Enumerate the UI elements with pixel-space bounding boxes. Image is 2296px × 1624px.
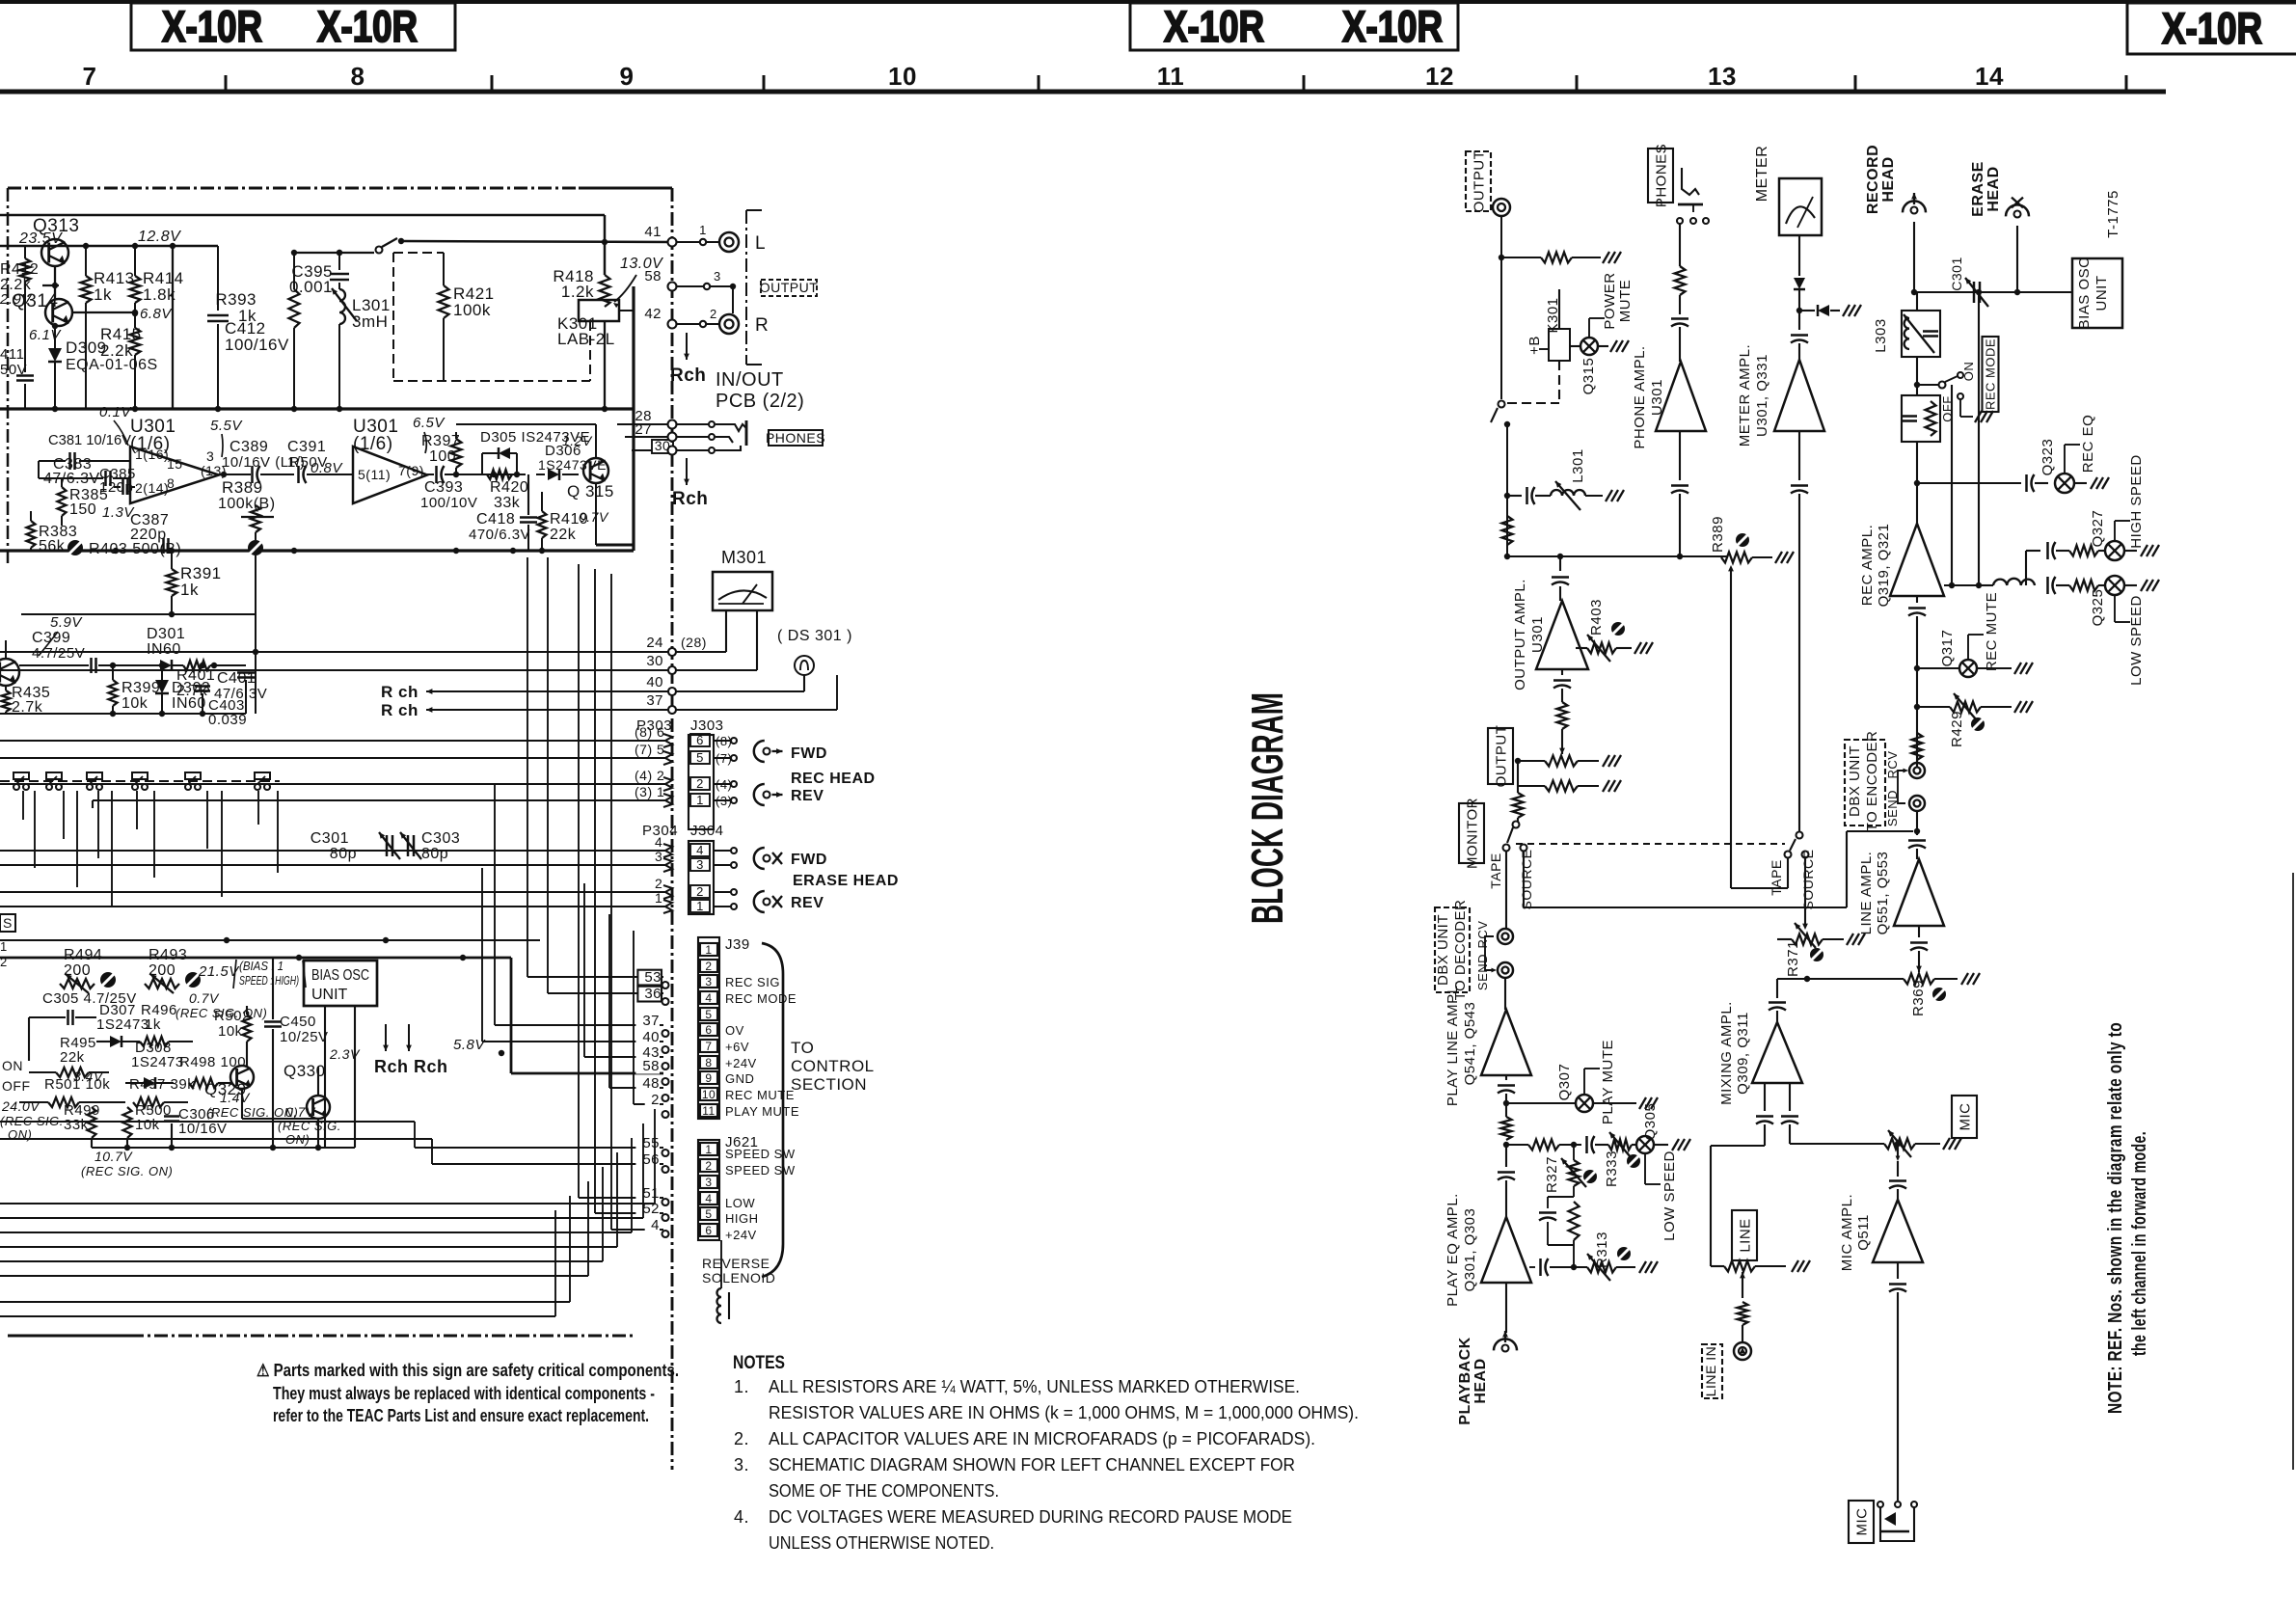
svg-text:7(9): 7(9)	[398, 463, 424, 478]
svg-text:HIGH SPEED: HIGH SPEED	[2128, 454, 2145, 549]
svg-text:+6V: +6V	[725, 1040, 749, 1054]
transistor Q329	[204, 1066, 318, 1119]
svg-text:56k: 56k	[39, 538, 66, 555]
svg-text:R403 500(B): R403 500(B)	[89, 541, 181, 557]
wire q315 emitter	[596, 483, 634, 545]
svg-text:5: 5	[705, 1207, 712, 1221]
staircase rows J39	[482, 784, 663, 1108]
svg-text:X-10R: X-10R	[317, 2, 418, 51]
wire meter down	[1798, 235, 1800, 276]
svg-text:LOW SPEED: LOW SPEED	[2128, 595, 2145, 686]
title box X-10R left	[131, 2, 455, 51]
svg-text:SCHEMATIC DIAGRAM SHOWN FOR LE: SCHEMATIC DIAGRAM SHOWN FOR LEFT CHANNEL…	[769, 1455, 1295, 1475]
capacitor C411	[0, 291, 34, 409]
wire rcv to recamp	[1916, 762, 1918, 764]
trimmer C303	[400, 830, 460, 862]
monitor label box	[1459, 798, 1484, 869]
resistor R385	[58, 487, 109, 518]
svg-text:150: 150	[69, 501, 96, 518]
svg-text:58: 58	[644, 268, 662, 284]
J304 pin1	[655, 890, 737, 913]
svg-text:6: 6	[696, 733, 704, 747]
rec feedback rows	[1943, 585, 1945, 596]
opamp METER AMPL	[1737, 344, 1824, 447]
node 41	[644, 224, 676, 247]
wire row36	[548, 557, 663, 1002]
svg-text:S: S	[3, 915, 13, 931]
svg-text:2: 2	[696, 884, 704, 899]
label S box	[0, 914, 15, 932]
resistor R414	[130, 246, 184, 304]
svg-text:REC AMPL.: REC AMPL.	[1859, 525, 1876, 607]
svg-text:U301: U301	[1649, 379, 1665, 416]
svg-text:SEND: SEND	[1475, 954, 1490, 990]
svg-text:L: L	[755, 233, 766, 254]
resistor R413	[81, 246, 135, 409]
svg-text:FWD: FWD	[791, 745, 827, 762]
svg-text:Q511: Q511	[1855, 1214, 1872, 1251]
pin label 3(13)	[201, 448, 227, 478]
capacitor meter2	[1791, 431, 1808, 831]
svg-text:0.7V: 0.7V	[285, 1104, 316, 1120]
svg-text:4: 4	[705, 1192, 712, 1205]
pot R327	[1544, 1142, 1597, 1193]
svg-text:30: 30	[646, 653, 663, 669]
wire row40	[381, 674, 672, 701]
svg-text:C418: C418	[476, 511, 515, 528]
svg-text:(3) 1: (3) 1	[635, 784, 664, 799]
svg-text:2: 2	[710, 307, 717, 321]
svg-text:R429: R429	[1949, 711, 1965, 747]
capacitor C401	[214, 665, 267, 714]
rc parallel r327	[1539, 1186, 1580, 1267]
svg-text:OUTPUT AMPL.: OUTPUT AMPL.	[1512, 579, 1528, 690]
svg-text:BIAS OSC: BIAS OSC	[2076, 257, 2093, 330]
J304 pin2	[655, 876, 737, 899]
svg-text:Rch: Rch	[672, 489, 708, 509]
pot mic level	[1884, 1130, 1961, 1157]
label play mute	[1584, 1040, 1616, 1124]
capacitor mic-bot	[1889, 1262, 1906, 1501]
label power mute	[1589, 272, 1634, 338]
svg-text:5(11): 5(11)	[358, 467, 391, 482]
svg-text:1: 1	[0, 939, 8, 954]
pot R369b	[1777, 973, 1980, 1016]
svg-text:(28): (28)	[681, 635, 707, 650]
connector J621 pins	[662, 1134, 796, 1242]
label Q327	[2090, 454, 2145, 549]
svg-text:2.9V: 2.9V	[0, 291, 33, 308]
node 27	[668, 433, 677, 442]
label to control section	[791, 1039, 875, 1094]
svg-text:SOURCE: SOURCE	[1519, 850, 1534, 910]
jack dbx enc send	[1885, 790, 1925, 826]
svg-text:Q301, Q303: Q301, Q303	[1462, 1208, 1478, 1292]
svg-text:Rch: Rch	[670, 365, 706, 386]
mic label box	[1952, 1096, 1977, 1138]
svg-text:1k: 1k	[145, 1016, 161, 1033]
svg-text:1(16): 1(16)	[135, 447, 169, 462]
svg-text:R369: R369	[1910, 980, 1927, 1016]
capacitor outamp-bot	[1553, 669, 1571, 702]
svg-text:Q327: Q327	[2090, 510, 2106, 548]
J304 pin4	[655, 834, 737, 857]
svg-text:1: 1	[696, 793, 704, 807]
inductor L301	[332, 283, 391, 409]
svg-text:NOTES: NOTES	[733, 1353, 785, 1373]
capacitor meter	[1791, 336, 1808, 361]
svg-text:37: 37	[642, 1013, 660, 1029]
label 0.7V rec	[176, 990, 267, 1020]
capacitor mix-in1	[1756, 1083, 1773, 1146]
title box X-10R middle	[1130, 2, 1458, 51]
svg-text:REV: REV	[791, 788, 824, 804]
svg-text:D309: D309	[66, 338, 107, 357]
svg-text:U301: U301	[1529, 616, 1546, 653]
svg-text:0.7V: 0.7V	[579, 509, 609, 525]
wire mic to mix	[1790, 1143, 1884, 1145]
label J303	[690, 717, 724, 734]
svg-text:MIC AMPL.: MIC AMPL.	[1839, 1194, 1855, 1271]
svg-text:refer to the TEAC Parts List a: refer to the TEAC Parts List and ensure …	[273, 1406, 649, 1425]
svg-text:MONITOR: MONITOR	[1464, 798, 1480, 869]
svg-text:SECTION: SECTION	[791, 1075, 867, 1094]
svg-text:+24V: +24V	[725, 1056, 757, 1070]
opamp OUTPUT AMPL U301	[1512, 579, 1588, 690]
phones wires	[676, 421, 715, 453]
label on/off	[2, 1058, 31, 1094]
mic jack bd	[1877, 1502, 1917, 1541]
node 42	[644, 306, 676, 329]
wire row53	[527, 557, 663, 986]
pot R371	[1777, 923, 1865, 977]
svg-text:IN60: IN60	[147, 641, 181, 658]
pin label 15	[167, 456, 183, 472]
schematic dash-dot bottom border	[8, 1335, 636, 1338]
svg-text:4: 4	[696, 843, 704, 857]
svg-text:5: 5	[696, 750, 704, 765]
pot R494	[60, 947, 116, 993]
resistor R502	[214, 1006, 252, 1067]
svg-text:LINE IN: LINE IN	[1703, 1346, 1718, 1397]
phones jack bd	[1677, 168, 1709, 224]
wire mic chain	[1896, 1144, 1901, 1177]
page right edge	[2292, 873, 2294, 1470]
svg-text:+24V: +24V	[725, 1228, 757, 1242]
jack dbx dec rcv	[1475, 921, 1513, 949]
voltage 0.1V	[99, 404, 132, 446]
svg-text:80p: 80p	[421, 846, 448, 862]
svg-text:Q323: Q323	[2039, 439, 2056, 476]
svg-text:10/25V: 10/25V	[280, 1029, 329, 1045]
svg-text:100: 100	[429, 448, 456, 465]
svg-text:R ch: R ch	[381, 701, 419, 719]
capacitor lineamp-bot	[1910, 926, 1928, 972]
svg-text:J621: J621	[725, 1134, 759, 1150]
svg-text:2: 2	[696, 776, 704, 791]
node 58	[644, 268, 676, 291]
svg-text:R327: R327	[1544, 1156, 1560, 1193]
wire row p304-2	[0, 891, 665, 893]
capacitor C306	[164, 1102, 228, 1148]
wire k301 out	[604, 321, 606, 409]
svg-text:22k: 22k	[550, 527, 577, 543]
svg-text:2.: 2.	[734, 1429, 749, 1448]
transistor Q313	[33, 216, 79, 266]
resistor monitor	[1513, 793, 1524, 818]
wire r389 drop	[253, 555, 258, 714]
wire mix bus	[1776, 979, 1778, 998]
svg-text:10k: 10k	[122, 695, 149, 712]
svg-text:1k: 1k	[180, 581, 199, 599]
resistor R401	[176, 661, 246, 699]
svg-text:2: 2	[705, 1159, 712, 1173]
capacitor C403	[195, 663, 247, 728]
svg-text:REC HEAD: REC HEAD	[791, 771, 876, 787]
erase head fwd	[754, 848, 827, 869]
svg-text:Q317: Q317	[1939, 630, 1956, 667]
dbx dec arrows	[1485, 936, 1497, 972]
note vertical	[2105, 1022, 2150, 1414]
label 10.7V	[81, 1149, 173, 1178]
svg-text:PHONE AMPL.: PHONE AMPL.	[1632, 345, 1648, 448]
wire source2 R371	[1802, 858, 1808, 930]
resistor line in	[1738, 1302, 1748, 1343]
capacitor C418	[469, 474, 537, 551]
line label box	[1732, 1210, 1757, 1260]
wire monitor source line	[1523, 852, 1525, 907]
svg-text:6: 6	[705, 1023, 712, 1037]
wire tape to decoder	[1505, 852, 1507, 928]
wire amp1 out	[219, 472, 251, 477]
resistor R500	[123, 1102, 172, 1148]
svg-text:43: 43	[642, 1044, 660, 1061]
svg-text:3: 3	[714, 269, 721, 284]
svg-text:Q551, Q553: Q551, Q553	[1875, 852, 1891, 935]
svg-text:40: 40	[646, 674, 663, 690]
capacitor C412	[207, 246, 289, 409]
J303 pin5	[635, 742, 737, 766]
svg-text:MIC: MIC	[1853, 1508, 1870, 1536]
svg-text:50V: 50V	[0, 362, 27, 378]
pin label 1(16)	[135, 447, 169, 462]
svg-text:BIAS OSC: BIAS OSC	[311, 967, 369, 984]
wire jack R	[676, 307, 718, 327]
relay K301 bd	[1526, 289, 1570, 361]
svg-text:Rch Rch: Rch Rch	[374, 1057, 448, 1076]
wire c395 top	[291, 250, 374, 256]
J304 pin3	[655, 849, 737, 872]
svg-text:(1/6): (1/6)	[353, 434, 393, 454]
node 24	[668, 648, 726, 656]
resistor R412	[0, 246, 39, 293]
svg-text:1.4V: 1.4V	[220, 1090, 251, 1105]
wire line to mix	[1711, 1146, 1765, 1266]
rec mode label box	[1983, 337, 1999, 412]
switch output mute	[1491, 361, 1559, 427]
svg-text:4.7/25V: 4.7/25V	[32, 645, 85, 662]
svg-text:SOLENOID: SOLENOID	[702, 1270, 775, 1286]
svg-text:C389: C389	[230, 439, 268, 455]
record head bd	[1865, 145, 1926, 295]
svg-text:10.7V: 10.7V	[95, 1149, 133, 1164]
wire q314 base	[72, 310, 138, 315]
wire q315 coll	[456, 424, 596, 458]
wire 12.8V rail	[0, 243, 218, 249]
svg-text:C393: C393	[424, 479, 463, 496]
label Rch Rch	[374, 1024, 448, 1076]
opamp U301a	[130, 417, 219, 503]
svg-text:LINE: LINE	[1737, 1218, 1753, 1252]
meter box bd	[1779, 178, 1822, 235]
svg-text:R501 10k: R501 10k	[44, 1076, 110, 1093]
svg-text:C303: C303	[421, 830, 460, 847]
svg-text:1.: 1.	[734, 1377, 749, 1396]
svg-text:8: 8	[167, 475, 175, 491]
diode D308	[125, 1040, 184, 1089]
svg-text:X-10R: X-10R	[1164, 2, 1264, 51]
label Rch upper	[670, 333, 706, 386]
resistor R421	[393, 253, 495, 381]
svg-text:Q330: Q330	[284, 1062, 326, 1080]
label 1.4V	[206, 1090, 298, 1120]
erase head bd	[1970, 161, 2029, 295]
svg-text:24.0V: 24.0V	[1, 1098, 41, 1114]
svg-text:(REC SIG. ON): (REC SIG. ON)	[81, 1164, 173, 1178]
row Q327	[2026, 541, 2159, 585]
svg-text:C391: C391	[287, 439, 326, 455]
wire tape2 to R389	[1728, 565, 1788, 888]
wire row j303-6	[0, 740, 665, 742]
svg-text:MIC: MIC	[1957, 1102, 1973, 1130]
diode D305	[480, 429, 590, 474]
transistor Q315	[567, 458, 614, 501]
svg-text:DBX UNIT: DBX UNIT	[1435, 914, 1451, 986]
svg-text:C399: C399	[32, 630, 70, 646]
capacitor phones1	[1671, 319, 1688, 363]
svg-text:C301: C301	[311, 830, 349, 847]
diode D301	[147, 626, 185, 671]
svg-text:7: 7	[83, 62, 97, 91]
schematic dash-dot top border	[8, 187, 672, 190]
svg-text:R403: R403	[1588, 599, 1605, 636]
bias select dashed box	[393, 253, 590, 381]
resistor R418	[553, 267, 609, 307]
J303 pin1	[635, 784, 737, 808]
svg-text:SPEED SW: SPEED SW	[725, 1163, 796, 1177]
wire q315 row	[482, 472, 579, 477]
svg-text:1: 1	[655, 890, 662, 906]
dbx enc arrows	[1898, 769, 1908, 803]
lamp Q315 bd	[1570, 338, 1629, 394]
svg-text:3mH: 3mH	[352, 312, 388, 331]
svg-text:HEAD: HEAD	[1985, 166, 2002, 211]
svg-text:PHONES: PHONES	[766, 430, 825, 446]
switch rec mode	[1917, 362, 1993, 422]
svg-text:22k: 22k	[60, 1049, 85, 1066]
phones label box	[766, 430, 825, 446]
svg-text:LAB-2L: LAB-2L	[557, 330, 615, 348]
lamp Q307	[1506, 1064, 1658, 1112]
staircase rows J621	[415, 1135, 663, 1233]
svg-text:0.8V: 0.8V	[311, 460, 343, 476]
node 30c	[668, 666, 757, 674]
wire q313-q314	[42, 266, 59, 299]
svg-text:REV: REV	[791, 895, 824, 911]
resistor R399	[109, 663, 161, 714]
relay K301	[557, 286, 635, 381]
svg-text:( DS 301 ): ( DS 301 )	[777, 628, 852, 644]
svg-text:OFF: OFF	[2, 1078, 31, 1094]
pot out-level2	[1518, 780, 1621, 792]
svg-text:470/6.3V: 470/6.3V	[469, 527, 530, 543]
svg-text:10/16V: 10/16V	[178, 1121, 228, 1137]
label erase head	[793, 873, 899, 889]
svg-text:RESISTOR VALUES ARE IN OHMS (k: RESISTOR VALUES ARE IN OHMS (k = 1,000 O…	[769, 1403, 1359, 1422]
switch drop wires	[23, 791, 278, 907]
svg-text:ALL CAPACITOR VALUES ARE IN MI: ALL CAPACITOR VALUES ARE IN MICROFARADS …	[769, 1429, 1315, 1448]
opamp U301b	[353, 417, 427, 503]
svg-text:13: 13	[1708, 62, 1737, 91]
wire apex rec	[1916, 483, 1918, 524]
pot R333	[1604, 1150, 1640, 1187]
wire jack L	[676, 223, 718, 245]
pin label 5(11)	[358, 467, 391, 482]
svg-text:3: 3	[206, 448, 214, 464]
svg-text:UNLESS OTHERWISE NOTED.: UNLESS OTHERWISE NOTED.	[769, 1533, 994, 1553]
resistor out-series	[1502, 516, 1513, 545]
svg-text:R412: R412	[0, 261, 39, 278]
label Rch lower	[672, 458, 708, 509]
svg-text:6.8V: 6.8V	[140, 306, 173, 322]
resistor outamp-in	[1557, 702, 1568, 754]
wire bias bottom	[92, 1145, 355, 1150]
wire rail to pin41	[401, 241, 672, 242]
diode D309	[48, 323, 158, 409]
opamp MIC AMPL	[1839, 1194, 1923, 1271]
svg-text:R371: R371	[1785, 940, 1801, 977]
svg-text:ON: ON	[1961, 362, 1976, 382]
resistor R498	[179, 1054, 246, 1088]
wire output down	[1499, 216, 1504, 399]
svg-text:U301, Q331: U301, Q331	[1754, 354, 1770, 437]
filter row r327	[1506, 1132, 1637, 1157]
head select switches	[0, 772, 280, 790]
capacitor C391	[287, 439, 353, 483]
capacitor C385	[99, 466, 136, 496]
svg-text:Q315: Q315	[1580, 358, 1597, 395]
svg-text:33k: 33k	[64, 1117, 89, 1133]
svg-text:Q325: Q325	[2090, 589, 2106, 627]
svg-text:R389: R389	[222, 478, 263, 497]
wire row37	[381, 692, 672, 719]
capacitor playeq-top	[1498, 1145, 1515, 1217]
capacitor C305	[29, 990, 137, 1061]
node 30	[668, 447, 677, 455]
svg-text:REC MODE: REC MODE	[1984, 338, 1998, 410]
svg-text:SPEED : HIGH): SPEED : HIGH)	[239, 973, 299, 988]
jack dbx enc rcv	[1885, 751, 1925, 779]
svg-text:411: 411	[0, 346, 24, 363]
wire line in	[1740, 1272, 1745, 1298]
svg-text:R ch: R ch	[381, 683, 419, 701]
safety note	[257, 1361, 679, 1425]
inductor L301 bd	[1551, 448, 1624, 510]
label T-1775	[2105, 190, 2121, 238]
capacitor rec-in	[1908, 596, 1926, 767]
svg-text:9: 9	[705, 1071, 712, 1085]
pot R389a	[218, 478, 276, 555]
